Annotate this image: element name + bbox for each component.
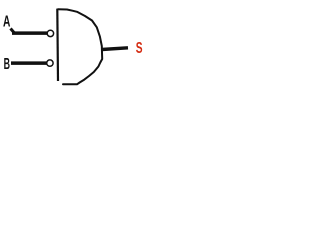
gate U1 body outline (top edge, right arc, bottom edge) [58,9,102,84]
wire B input [11,61,47,65]
wire S output [102,48,128,50]
svg-text:S: S [136,40,143,57]
gate U1 left edge [56,9,59,81]
inverter bubble on input B [47,60,53,66]
svg-text:B: B [4,56,10,73]
wire A input [12,31,47,35]
inverter bubble on input A [47,30,53,36]
wire A to label connector [11,29,15,34]
svg-text:A: A [3,14,11,31]
